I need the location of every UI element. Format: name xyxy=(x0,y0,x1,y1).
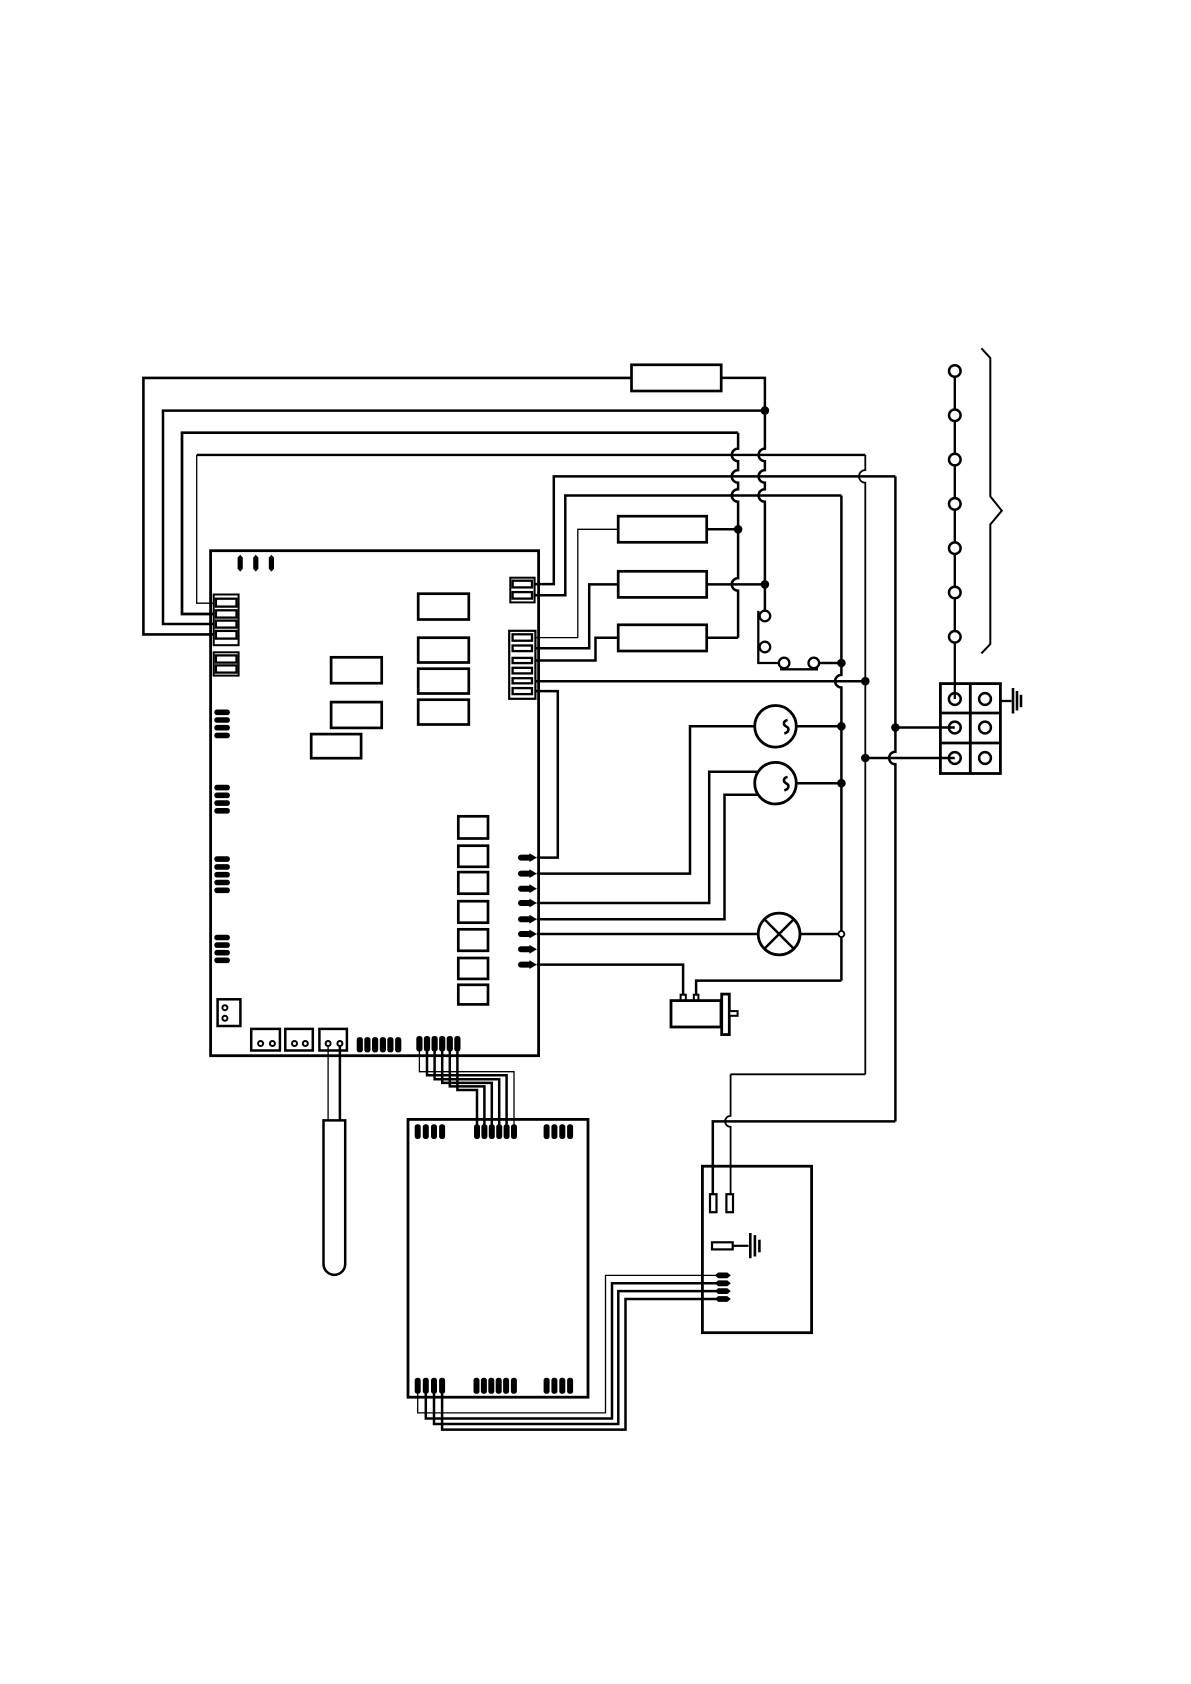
connector X1 slot1 xyxy=(216,599,237,607)
board left pin header group 1 xyxy=(214,710,230,716)
display board outline xyxy=(408,1119,588,1397)
component box D2 (right column) xyxy=(458,846,488,867)
connector X8 (bottom 2-pin box 3, temp sensor) xyxy=(319,1029,347,1051)
display top pin group 2 xyxy=(511,1124,517,1139)
relay K2 box xyxy=(331,702,382,728)
switch S1 contact circle c xyxy=(779,658,790,669)
main control board outline xyxy=(211,551,539,1056)
connector X2 slot1 xyxy=(216,655,237,662)
brace (cable group bracket) xyxy=(981,348,1001,653)
terminal XT row2 circle right xyxy=(979,722,991,734)
interlock chain wire segments xyxy=(954,377,956,410)
board right pin arrow 6 xyxy=(521,931,531,937)
lamp E1 circle with cross xyxy=(758,913,800,955)
junction dot V738/R2top right lead xyxy=(734,525,743,534)
wire temp probe lead 1 xyxy=(327,1046,329,1121)
switch S1 actuator bar xyxy=(758,611,779,663)
connector X6 (bottom 2-pin box 1) xyxy=(251,1029,280,1051)
wire board pin row2-6 to display pin 1 xyxy=(457,1052,477,1125)
connector X4 outer (2-slot, right top) xyxy=(510,578,534,603)
wire motor M2 upper-left lead to pin arrow 4 xyxy=(537,772,776,903)
connector X5 outer (6-slot, right) xyxy=(509,631,535,699)
wire motor M2 right lead to dot on V841 xyxy=(776,782,842,785)
pump M3 body xyxy=(671,1001,721,1027)
board left pin header group 2 xyxy=(214,785,230,791)
wire display bottom pin 1 to ignition box pin 1 xyxy=(418,1275,716,1413)
junction dot M2/V841 xyxy=(837,779,846,788)
wire spark component lead xyxy=(733,1245,749,1247)
wire bus V841: corner y496 down through switch/motor/lamp nodes to pump elbow xyxy=(835,496,841,981)
board right pin arrow 7 xyxy=(521,946,531,952)
wire X5 slot6 lead loop back to pin arrow 1 xyxy=(533,691,558,858)
connector X5 slot2 xyxy=(513,646,532,652)
terminal block XT row divider 2 xyxy=(940,742,1000,745)
wire net-2: junction at V765 to board connector X1 slot3 xyxy=(163,411,765,624)
wire display bottom pin 4 to ignition box pin 4 xyxy=(442,1299,716,1430)
ignition box top pin 2 xyxy=(726,1194,733,1212)
node A junction dot xyxy=(761,406,770,415)
wire R1 right lead to node A xyxy=(721,378,765,411)
junction dot S1/V841 xyxy=(837,659,846,668)
wire pump pin1 to pin arrow 8 xyxy=(537,965,683,995)
wire V731 down to ignition box pin2 with hop over y1121 xyxy=(725,1074,731,1194)
wire R2 right lead xyxy=(707,528,738,531)
interlock chain contact circle 2 xyxy=(949,410,961,422)
switch S1 contact circle d xyxy=(809,658,820,669)
display top pin group 3 xyxy=(544,1124,550,1139)
resistor R2 (mid element 1) xyxy=(618,516,707,542)
wire motor M1 right lead to dot on V841 xyxy=(776,725,842,728)
connector X5 slot4 xyxy=(513,668,532,674)
wire R3 left lead riser to connector X5 slot2 xyxy=(533,584,618,648)
wire V738 bottom elbow to resistor R4 right edge xyxy=(707,636,738,639)
switch S1 contact circle b xyxy=(760,642,771,653)
display bottom pin group 3 xyxy=(544,1378,550,1394)
motor M1 circle xyxy=(755,706,797,748)
terminal block XT outline xyxy=(940,684,1000,774)
connector X5 slot3 xyxy=(513,658,532,663)
resistor R3 (mid element 2) xyxy=(618,571,707,597)
connector X5 slot6 xyxy=(513,688,532,694)
terminal XT row1 circle left xyxy=(949,693,961,705)
ground G1 at terminal block xyxy=(1000,700,1011,702)
board top pin J1 xyxy=(238,555,243,572)
junction dot V765/R2 right lead xyxy=(761,580,770,589)
interlock chain contact circle 4 xyxy=(949,498,961,510)
interlock chain contact circle 3 xyxy=(949,454,961,466)
wire motor M2 lower-left lead to pin arrow 5 xyxy=(537,795,776,920)
connector X3 (2-circle, bottom left) xyxy=(218,999,241,1026)
board right pin arrow 8 xyxy=(521,962,531,968)
terminal block XT column divider xyxy=(969,684,972,774)
pump M3 flange xyxy=(722,994,730,1035)
wire net-4 top: horizontal y455 to corner x865 xyxy=(197,454,866,456)
wire X5 slot5 lead to dot on V865 (hop over V841 drawn on bus) xyxy=(533,680,865,683)
wire board pin row2-3 to display pin 4 xyxy=(435,1052,500,1125)
wire X4 slot1 riser to horizontal y476 to corner x895 xyxy=(533,476,895,584)
wire bus V765: node A down to switch S1 circle, hops over y455/y476/y496, dot at R3... xyxy=(759,411,765,611)
connector X1 slot3 xyxy=(216,621,237,628)
wire V895 elbow left down into ignition box pin1 xyxy=(713,1121,896,1194)
connector X4 slot1 xyxy=(513,581,532,588)
wire V841 elbow to pump pin2 xyxy=(696,981,841,995)
connector X1 slot4 xyxy=(216,631,237,639)
wire net-4 left: board connector X1 slot1 riser xyxy=(197,455,217,603)
connector X2 slot2 xyxy=(216,665,237,672)
wire R4 left lead step to connector X5 slot3 xyxy=(533,638,618,661)
wire R3 right lead xyxy=(707,583,765,586)
ignition box spark component xyxy=(712,1242,733,1249)
wire board pin row2-5 to display pin 2 xyxy=(450,1052,485,1125)
switch S1 contact circle a xyxy=(760,611,771,622)
board bottom pin header row 1 xyxy=(357,1037,363,1052)
display bottom pin group 1 xyxy=(415,1378,421,1394)
component box C3 xyxy=(418,669,469,694)
connector X1 outer (4-slot, left) xyxy=(214,595,239,646)
terminal XT row3 circle right xyxy=(979,752,991,764)
component box D5 (right column) xyxy=(458,929,488,951)
wire X4 slot2 riser to horizontal y496 to corner x841 xyxy=(533,496,841,596)
component box C1 xyxy=(418,594,469,620)
temp probe B1 body xyxy=(324,1120,346,1274)
ignition box left pins xyxy=(715,1273,731,1279)
junction dot V895/y728 with wire into terminal XT row2 xyxy=(891,723,900,732)
component box D1 (right column) xyxy=(458,816,488,838)
relay K1 box xyxy=(331,657,382,683)
wire display bottom pin 3 to ignition box pin 3 xyxy=(434,1291,716,1424)
terminal XT row1 circle right xyxy=(979,693,991,705)
wire net-1 outer loop: resistor K1 left lead to board connector X1 slot4 xyxy=(143,378,631,635)
board left pin header group 3 xyxy=(214,856,230,862)
board left pin header group 4 xyxy=(214,935,230,941)
resistor R1 (top heater element) xyxy=(632,365,722,391)
interlock chain contact circle 7 xyxy=(949,631,961,643)
interlock chain contact circle 5 xyxy=(949,542,961,554)
wire temp probe lead 2 xyxy=(339,1046,342,1121)
component box C2 xyxy=(418,638,469,663)
connector X5 slot1 xyxy=(513,634,532,640)
pump M3 pin1 xyxy=(681,995,686,1001)
board right pin arrow 2 xyxy=(521,871,531,877)
board top pin J3 xyxy=(269,555,274,572)
motor M2 AC squiggle xyxy=(784,777,788,791)
junction dot V865/y758 with wire into terminal XT row3 xyxy=(861,754,870,763)
wire net-3: vertical V738 top to board connector X1 slot2 xyxy=(182,433,738,614)
junction dot V865/y681 xyxy=(861,677,870,686)
switch S1 bridge bar xyxy=(780,668,818,670)
pump M3 shaft xyxy=(729,1011,737,1016)
wire bus V895: corner y476 down to elbow y1121, hop at y758 xyxy=(889,476,895,1121)
wire board pin row2-1 to display pin 6 xyxy=(419,1052,514,1125)
board bottom pin header row 2 xyxy=(416,1036,422,1052)
board right pin arrow 3 xyxy=(521,886,531,892)
connector X1 slot2 xyxy=(216,610,237,617)
board right pin arrow 4 xyxy=(521,900,531,906)
component box D4 (right column) xyxy=(458,901,488,923)
board right pin arrow 5 xyxy=(521,916,531,922)
wire display bottom pin 2 to ignition box pin 2 xyxy=(426,1283,716,1418)
resistor R4 (mid element 3) xyxy=(618,625,707,651)
wire lamp E1 left lead to pin arrow 6 xyxy=(537,933,779,936)
connector X4 slot2 xyxy=(513,592,532,599)
wire lamp E1 right lead to V841 xyxy=(779,933,839,936)
motor M2 circle xyxy=(755,762,797,804)
board right pin arrow 1 xyxy=(521,855,531,861)
junction dot M1/V841 xyxy=(837,722,846,731)
display bottom pin group 2 xyxy=(474,1378,480,1394)
component box D7 (right column) xyxy=(458,985,488,1005)
display top pin group 1 xyxy=(415,1124,421,1139)
terminal XT row2 circle left xyxy=(949,722,961,734)
connector X5 slot5 xyxy=(513,678,532,683)
relay K3 box xyxy=(311,734,361,758)
component box D6 (right column) xyxy=(458,958,488,979)
motor M1 AC squiggle xyxy=(784,720,788,734)
interlock chain contact circle 6 xyxy=(949,587,961,599)
interlock chain contact circle 1 xyxy=(949,365,961,377)
component box C4 xyxy=(418,700,469,725)
wire board pin row2-2 to display pin 5 xyxy=(427,1052,507,1125)
connector X2 outer (2-slot, left) xyxy=(214,652,239,675)
ignition box top pin 1 xyxy=(710,1194,717,1212)
wire bus V865: corner y455 down to elbow y1074, hop at y476 xyxy=(859,455,865,1074)
wire R2 left lead riser to connector X5 slot1 xyxy=(533,529,618,637)
component box D3 (right column) xyxy=(458,872,488,894)
ignition box outline xyxy=(702,1166,811,1333)
connector X7 (bottom 2-pin box 2) xyxy=(285,1029,313,1051)
pump M3 pin2 xyxy=(694,995,699,1001)
wire S1 output to dot on V841 xyxy=(819,662,841,665)
terminal XT row3 circle left xyxy=(949,752,961,764)
board top pin J2 xyxy=(253,555,258,572)
lamp terminal small circle on V841 xyxy=(838,931,844,937)
ground G2 inside ignition box xyxy=(749,1233,752,1258)
terminal block XT row divider 1 xyxy=(940,712,1000,715)
wire V865 elbow left then down to ignition box pin2 xyxy=(731,1073,866,1075)
wire bus V738: corner y433 down to R4 right lead, hops at y455/y476/y496/y584 xyxy=(732,433,738,638)
wire motor M1 left lead to pin arrow 2 xyxy=(537,726,776,873)
wire board pin row2-4 to display pin 3 xyxy=(442,1052,492,1125)
